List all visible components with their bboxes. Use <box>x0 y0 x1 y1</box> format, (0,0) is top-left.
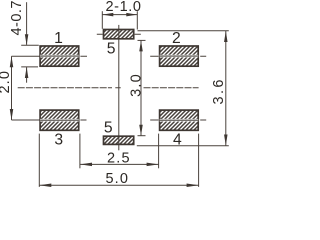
svg-text:4-0.7: 4-0.7 <box>9 1 25 36</box>
svg-text:3: 3 <box>54 132 63 149</box>
svg-text:5.0: 5.0 <box>105 171 128 187</box>
svg-text:4: 4 <box>173 132 182 149</box>
svg-text:3.0: 3.0 <box>128 74 144 97</box>
svg-text:3.6: 3.6 <box>211 80 227 105</box>
svg-text:2.0: 2.0 <box>0 71 13 94</box>
svg-text:1: 1 <box>54 30 63 47</box>
svg-text:5: 5 <box>107 41 116 58</box>
svg-text:5: 5 <box>104 119 113 136</box>
svg-text:2.5: 2.5 <box>107 150 130 166</box>
svg-text:2-1.0: 2-1.0 <box>105 0 141 15</box>
svg-text:2: 2 <box>172 30 181 47</box>
